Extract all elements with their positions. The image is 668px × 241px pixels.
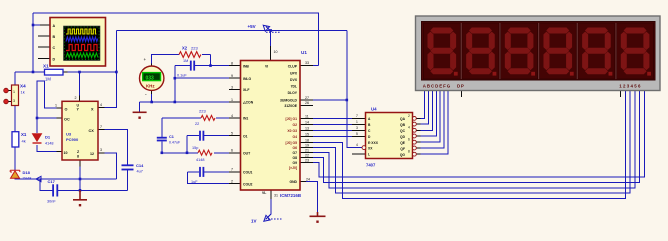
wire U1 pin 4 with resistor [162,117,229,119]
svg-text:0.47uF: 0.47uF [169,141,181,145]
svg-text:033: 033 [146,76,155,82]
svg-text:2: 2 [408,114,410,118]
svg-text:8: 8 [77,155,79,159]
wire node column x174 [174,66,176,102]
svg-text:IN1: IN1 [243,117,248,121]
svg-text:O8: O8 [292,156,297,160]
wire U1 pin 27 [313,99,347,101]
svg-text:21: 21 [305,148,309,152]
svg-text:4148: 4148 [196,158,204,162]
wire digit bus 3 [313,91,635,188]
svg-text:6: 6 [231,149,233,153]
svg-text:13: 13 [305,126,309,130]
svg-text:27: 27 [305,96,309,100]
pin stubs black [9,25,621,199]
diode D1 1N4148 [33,134,54,146]
svg-text:QA: QA [400,117,406,121]
svg-text:ABCDEFG: ABCDEFG [423,84,451,89]
svg-text:19: 19 [305,143,309,147]
svg-text:CLUP: CLUP [288,64,298,68]
svg-text:+5V: +5V [248,24,256,29]
capacitor C14 [122,163,145,174]
svg-text:8: 8 [231,61,233,65]
input terminal 1V [251,214,282,224]
wire C1 bracket [161,118,163,153]
svg-text:PC900: PC900 [66,137,79,142]
connector X4 [4,84,26,106]
wire digit bus 5 [313,91,644,178]
svg-text:4: 4 [356,143,358,147]
svg-text:INB: INB [243,64,249,68]
wire left vertical to crystal line [32,13,34,72]
op-amp U3 PC900 input conditioner [55,96,102,160]
svg-text:X2: X2 [182,46,188,51]
svg-text:O4: O4 [292,135,297,139]
svg-text:[J0] O5: [J0] O5 [286,141,298,145]
svg-text:O1: O1 [243,134,248,138]
wire digit bus 4 [313,91,640,183]
wire digit bus 1 [313,91,625,199]
svg-text:1: 1 [13,90,15,94]
wire U3 bottom pin to ground line [79,167,81,191]
svg-text:D18: D18 [23,170,31,175]
capacitor 0.1uF osc [177,61,195,78]
wire scope input A [33,24,40,26]
svg-text:1M: 1M [45,77,51,82]
U1 pin numbers [231,50,310,198]
svg-text:A: A [53,24,56,28]
svg-text:7: 7 [231,168,233,172]
IC U1 ICM7216B counter [241,50,308,198]
capacitor 1uF pin7 [191,167,204,184]
wire U1 bottom pin to input terminal [266,199,272,220]
wire U4 output B to display [421,91,429,125]
svg-text:12: 12 [90,152,94,156]
svg-text:4: 4 [408,126,410,130]
svg-text:DLOY: DLOY [288,91,298,95]
svg-text:15: 15 [305,132,309,136]
svg-text:OUT: OUT [243,152,251,156]
svg-text:1M: 1M [183,59,188,63]
svg-text:B: B [53,35,56,39]
wire meter top to resistor X2 [152,55,211,64]
svg-text:[×J0]: [×J0] [289,166,297,170]
svg-text:7: 7 [356,114,358,118]
svg-text:KHz: KHz [146,84,155,89]
wire U4 output A to display [421,91,425,119]
svg-text:INLO: INLO [243,77,251,81]
wire U1 pin 1 meter bottom ground line [140,94,229,112]
svg-text:15p: 15p [192,146,198,150]
wire D18 output to U3 pin 5 bracket [15,153,116,179]
svg-text:31Z0OE: 31Z0OE [284,104,297,108]
svg-text:[J0] O1: [J0] O1 [286,117,298,121]
svg-text:1V: 1V [251,219,257,224]
svg-text:O2: O2 [292,123,297,127]
svg-text:E·XXX: E·XXX [368,141,379,145]
power terminal 5V [248,24,281,32]
ground right of U1 [310,212,326,223]
svg-text:OC: OC [64,118,70,122]
resistor X2 [179,46,201,64]
svg-text:O6: O6 [292,146,297,150]
ground under meter [133,112,147,119]
wire U1 pin 2 bracket [188,172,230,184]
svg-text:CX: CX [89,129,95,133]
svg-text:30nF: 30nF [47,200,56,204]
svg-text:O: O [65,108,68,112]
svg-text:U1: U1 [301,50,307,55]
svg-text:X1: X1 [21,132,27,137]
svg-text:X1: X1 [43,64,49,69]
svg-text:O9: O9 [292,161,297,165]
svg-text:XLF: XLF [243,88,249,92]
svg-text:△CON: △CON [242,101,254,105]
display 6-digit 7-segment [416,16,661,91]
meter frequency KHz [140,57,164,98]
svg-text:18: 18 [305,139,309,143]
oscilloscope [50,18,106,67]
svg-text:8: 8 [408,150,410,154]
svg-text:C: C [53,46,56,50]
wire U3 pin 1 and pin 2 bracket [37,81,62,118]
svg-text:C1: C1 [169,135,174,139]
svg-text:3: 3 [356,126,358,130]
ground under U3 [73,190,87,206]
svg-text:COU1: COU1 [243,171,253,175]
arrow on D18 wire [36,176,41,181]
svg-text:1: 1 [231,98,233,102]
svg-text:ICM7216B: ICM7216B [280,193,301,198]
svg-text:7DL: 7DL [291,85,297,89]
wire U1 top supply pin [270,31,272,47]
wire U3 top pin to crystal line [79,72,81,96]
wire U3 CX through C14 to ground line [40,130,128,191]
wire 5V rail horizontal [116,30,346,32]
svg-text:1uF: 1uF [191,180,198,184]
svg-text:1: 1 [55,104,57,108]
wire crystal right lead to 5V column [63,71,116,73]
svg-text:33: 33 [305,61,309,65]
svg-text:11: 11 [305,115,309,119]
svg-text:2V48: 2V48 [23,177,32,181]
wire U1 pin 9 [175,77,229,79]
wire U4 output G to display [421,91,448,155]
svg-text:31: 31 [274,194,278,198]
wire U1 segment outputs to U4 inputs [313,119,352,137]
buffer U4 driver [356,107,416,168]
svg-text:X0 O3: X0 O3 [287,129,297,133]
capacitor C1 bracket [157,135,181,145]
svg-text:7: 7 [100,125,102,129]
wire diode D1 chain to U3 pin 10 [37,118,62,152]
svg-text:GND: GND [289,180,297,184]
resistor R1 [12,132,27,147]
svg-text:3: 3 [231,85,233,89]
svg-text:COU2: COU2 [243,182,253,186]
svg-text:1: 1 [356,120,358,124]
svg-text:10: 10 [64,151,68,155]
svg-text:22: 22 [305,153,309,157]
svg-text:22: 22 [195,122,199,126]
svg-text:DP: DP [457,84,465,89]
wire 5V column to U3 supply pin [105,31,117,108]
wire U1 pin 24 to ground [306,182,318,213]
svg-text:4u7: 4u7 [137,170,143,174]
svg-text:3UMGOLD: 3UMGOLD [280,98,298,102]
svg-text:D: D [53,57,56,61]
svg-text:223: 223 [191,46,198,51]
svg-text:10: 10 [274,50,278,54]
svg-text:5: 5 [356,132,358,136]
svg-text:1k: 1k [21,90,25,95]
wire top rail scope A to U1 pin 33 [33,13,318,65]
svg-text:4: 4 [231,114,233,118]
svg-text:QG: QG [400,153,406,157]
svg-text:U4: U4 [371,107,377,112]
svg-text:7407: 7407 [366,163,376,168]
svg-text:D1: D1 [45,135,51,140]
svg-text:3: 3 [100,148,102,152]
svg-text:X4: X4 [20,84,26,89]
svg-text:L: L [368,153,370,157]
wire U4 output D to display [421,91,437,137]
wire U4 output F to display [421,91,445,149]
svg-text:4148: 4148 [45,142,53,146]
svg-text:+: + [144,57,147,62]
wire digit bus 2 [313,91,630,194]
svg-text:4: 4 [100,103,102,107]
svg-text:9: 9 [231,74,233,78]
svg-text:2: 2 [231,180,233,184]
svg-text:QF: QF [400,147,405,151]
diode D18 zener [10,170,31,181]
svg-text:2: 2 [75,96,77,100]
svg-text:6: 6 [408,138,410,142]
svg-text:0.1uF: 0.1uF [177,74,187,78]
wire U1 pin 6 with resistor [162,152,229,154]
svg-text:U3: U3 [66,132,72,137]
crystal X1 [43,64,63,82]
svg-text:VL: VL [262,191,266,195]
resistor 223 pin4 [195,109,215,127]
svg-text:4k: 4k [22,139,26,144]
wire 5V right column to U1 pin 27 and U4 [347,31,362,148]
resistor 471 pin6 [196,150,212,162]
svg-text:C17: C17 [48,179,56,184]
wire U4 output E to display [421,91,441,143]
wire U1 pin 7 with cap [188,171,230,173]
wire crystal left lead [15,71,45,73]
wire X2 right down to pin 8 node [210,55,212,66]
svg-text:14: 14 [305,120,309,124]
svg-text:O7: O7 [292,151,297,155]
svg-text:123456: 123456 [619,84,641,89]
svg-text:UPX: UPX [290,72,298,76]
capacitor C17 [47,179,58,204]
svg-text:QC: QC [400,129,406,133]
svg-text:QB: QB [400,123,406,127]
svg-text:C14: C14 [136,163,144,168]
svg-text:223: 223 [199,109,206,114]
svg-text:QD: QD [400,135,406,139]
wire U1 pin 8 line with cap [175,65,229,67]
svg-text:26: 26 [305,101,309,105]
svg-text:3: 3 [13,99,15,103]
svg-text:QE: QE [400,141,406,145]
svg-text:24: 24 [306,177,310,181]
svg-text:DVX: DVX [290,78,298,82]
svg-text:23: 23 [305,158,309,162]
wire U4 output C to display [421,91,433,131]
wire X4 R1 D18 chain [14,72,16,170]
svg-text:5: 5 [231,132,233,136]
capacitor 15p pin5 [192,131,204,150]
wire U1 pin 5 with cap [187,136,229,153]
svg-text:VI: VI [265,64,268,68]
